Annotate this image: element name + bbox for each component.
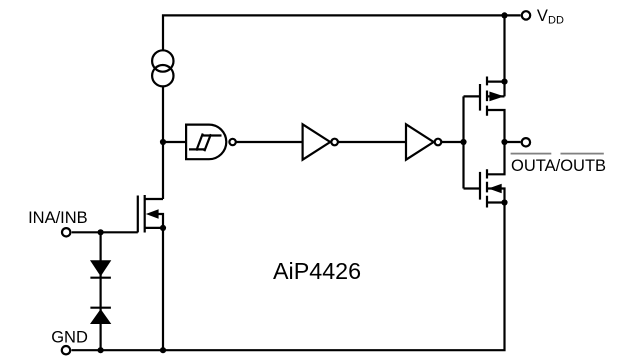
node Q3 source/bulk dot	[501, 199, 507, 205]
node Q2 source/bulk dot	[501, 79, 507, 85]
svg-text:GND: GND	[51, 328, 88, 346]
transistor Q2 (top, PMOS)	[480, 15, 505, 142]
wire gates vertical	[462, 96, 464, 188]
diode D1	[90, 260, 111, 277]
node gates junction	[460, 139, 466, 145]
overline OUTA	[511, 153, 552, 155]
wire schmitt to inverter U2	[236, 141, 303, 143]
wire diode branch	[99, 232, 101, 350]
terminal VDD	[522, 11, 530, 19]
svg-text:INA/INB: INA/INB	[28, 209, 88, 227]
inverter U2	[303, 124, 338, 159]
wire input	[72, 231, 138, 233]
node VDD junction	[501, 12, 507, 18]
current source I1	[152, 50, 173, 86]
node output junction	[501, 139, 507, 145]
node schmitt input junction	[160, 139, 166, 145]
terminal OUTA/OUTB	[522, 138, 530, 146]
wire inverter U2 to inverter U3	[338, 141, 406, 143]
wire bottom rail	[72, 203, 505, 351]
transistor Q1 (input)	[138, 195, 163, 233]
wire to schmitt input	[163, 141, 186, 143]
wire top rail VDD	[163, 15, 521, 49]
wire NMOS gate	[464, 187, 481, 189]
wire output	[505, 141, 521, 143]
svg-text:V: V	[537, 7, 548, 25]
node ground junction Q1	[160, 347, 166, 353]
overline OUTB	[561, 153, 604, 155]
schmitt trigger U1	[186, 125, 236, 160]
wire left vertical	[162, 86, 164, 199]
transistor Q3 (bottom, NMOS)	[480, 142, 505, 208]
node ground junction diodes	[98, 347, 104, 353]
terminal GND	[62, 346, 70, 354]
node Q1 source/bulk dot	[160, 225, 166, 231]
node input junction	[98, 229, 104, 235]
svg-text:OUTA/OUTB: OUTA/OUTB	[511, 157, 606, 175]
diode D2	[90, 308, 111, 324]
inverter U3	[406, 124, 441, 159]
wire Q1 source to ground rail	[162, 228, 164, 350]
terminal INA/INB	[62, 228, 70, 236]
svg-text:DD: DD	[548, 14, 564, 26]
wire PMOS gate	[464, 95, 481, 97]
svg-text:AiP4426: AiP4426	[273, 258, 361, 284]
wire inverter U3 to output gates	[441, 141, 463, 143]
